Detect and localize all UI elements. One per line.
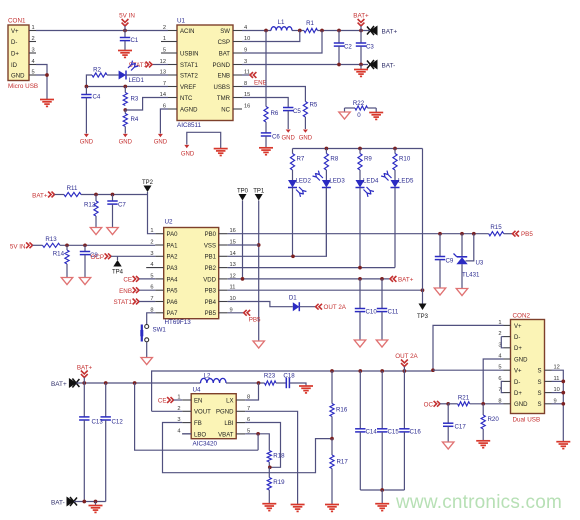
switch SW1 (147, 313, 156, 325)
resistor R4 (124, 110, 126, 114)
svg-text:NTC: NTC (180, 96, 193, 102)
resistor R23 (265, 381, 277, 385)
wire ACIN net: CON1 V+ to U1 ACIN (36, 30, 168, 32)
wire R21 to CON2 GND8 (470, 403, 504, 405)
wire VOUT rail (OUT 2A net) (152, 371, 433, 411)
svg-text:Micro USB: Micro USB (8, 83, 38, 90)
svg-text:D-: D- (11, 40, 17, 46)
wire BAT to U1.9 (242, 31, 322, 54)
test point TP4 (117, 256, 119, 260)
node R16/R17 feedback junction (331, 417, 333, 439)
svg-text:AIC8511: AIC8511 (177, 122, 202, 129)
svg-text:C11: C11 (388, 309, 399, 316)
svg-text:VOUT: VOUT (194, 410, 211, 416)
svg-text:LBI: LBI (224, 421, 233, 427)
svg-text:R5: R5 (310, 102, 318, 109)
ground GND port R4 (123, 134, 128, 137)
capacitor C9 (439, 234, 441, 257)
resistor R15 (489, 232, 504, 236)
svg-text:S: S (537, 369, 541, 375)
capacitor C1 (124, 31, 126, 38)
wire CON2 S pins to ground (552, 370, 564, 441)
svg-text:PGND: PGND (216, 410, 234, 416)
svg-text:4: 4 (150, 262, 153, 268)
off-sheet connector BAT- (bottom) (67, 497, 75, 507)
svg-text:GND: GND (514, 402, 528, 408)
svg-text:ENB: ENB (254, 80, 267, 87)
wire SW1 to ground (146, 342, 148, 358)
wire L2 to LX junction (226, 382, 265, 384)
svg-text:V+: V+ (514, 324, 522, 330)
ground R22 right (bar ground) (375, 108, 377, 113)
LED LED2 (288, 180, 297, 188)
svg-text:PA2: PA2 (167, 255, 179, 261)
svg-text:U2: U2 (165, 219, 174, 226)
svg-text:PA1: PA1 (167, 243, 179, 249)
svg-text:PB4: PB4 (205, 300, 217, 306)
svg-text:STAT1: STAT1 (113, 299, 132, 306)
inductor L2 (201, 378, 227, 383)
capacitor C13 (83, 383, 85, 417)
resistor R21 (458, 402, 470, 406)
svg-text:R23: R23 (264, 373, 276, 380)
connector CON1 Micro USB (8, 25, 29, 81)
wire LED1 cathode to U1 STAT2 (126, 74, 168, 76)
svg-text:2: 2 (150, 240, 153, 246)
svg-text:BAT: BAT (219, 51, 231, 57)
svg-text:5: 5 (32, 70, 35, 76)
node NTC divider junction (123, 108, 127, 112)
svg-text:ENB: ENB (119, 288, 132, 295)
capacitor C10 (359, 279, 361, 309)
svg-text:BAT-: BAT- (51, 500, 65, 507)
ground GND port C5 (286, 130, 291, 133)
svg-text:GND: GND (282, 136, 296, 142)
resistor R18 (267, 451, 271, 463)
svg-text:www.cntronics.com: www.cntronics.com (395, 492, 562, 513)
resistor R12 (95, 195, 97, 202)
wire AGND to GND (160, 109, 168, 134)
svg-text:R6: R6 (271, 110, 279, 117)
svg-text:TP3: TP3 (417, 314, 429, 320)
capacitor C14 (359, 371, 361, 429)
inductor L1 (271, 27, 292, 31)
svg-text:PA7: PA7 (167, 311, 179, 317)
wire BAT+ rail to L2 (152, 382, 201, 384)
svg-text:VSS: VSS (204, 243, 216, 249)
svg-text:AIC3420: AIC3420 (193, 441, 218, 448)
ground C9 (open) (434, 288, 445, 295)
resistor R2 (86, 75, 92, 87)
ground CON2 shield (bar ground) (556, 441, 570, 443)
ground C17 (open) (443, 442, 454, 449)
net label PB5 right (504, 233, 513, 235)
svg-text:CE: CE (158, 398, 167, 405)
svg-text:D-: D- (514, 335, 520, 341)
ground CON1 (bar ground) (40, 99, 54, 101)
wire PB1 net: U2.14 to LED2/LED3 (228, 255, 327, 257)
svg-text:D-: D- (514, 380, 520, 386)
svg-text:STAT1: STAT1 (180, 63, 199, 69)
svg-text:R12: R12 (84, 202, 96, 209)
svg-text:R18: R18 (273, 453, 285, 460)
wire BAT+ rail bottom (76, 382, 152, 384)
svg-text:C1: C1 (131, 37, 139, 44)
svg-text:PB0: PB0 (205, 232, 217, 238)
svg-text:GND: GND (11, 73, 25, 79)
wire CON1 GND down (36, 75, 47, 99)
svg-text:USBS: USBS (214, 85, 230, 91)
svg-text:OUT 2A: OUT 2A (324, 304, 347, 311)
wire output cap ground rail (360, 489, 404, 491)
svg-text:R7: R7 (297, 156, 305, 163)
svg-text:2: 2 (163, 25, 166, 31)
svg-text:PA5: PA5 (167, 289, 179, 295)
node R1 right / BAT sense (318, 30, 369, 32)
node L1-R1 (292, 30, 304, 32)
net label OUT 2A (299, 306, 315, 308)
wire ground tie below U1 (187, 132, 221, 148)
ground SW1 (open) (141, 358, 152, 365)
svg-text:L1: L1 (278, 19, 285, 26)
svg-text:Dual USB: Dual USB (513, 417, 541, 424)
svg-text:R16: R16 (336, 407, 348, 414)
svg-text:PB5: PB5 (521, 231, 533, 238)
resistor R9 (359, 149, 361, 154)
test point TP3 (422, 290, 424, 303)
svg-text:R21: R21 (458, 394, 470, 401)
node R18/R19 junction (268, 462, 270, 467)
svg-text:5V IN: 5V IN (10, 243, 26, 250)
svg-text:GND: GND (119, 140, 133, 146)
node 5V IN junction (123, 29, 127, 33)
ground C6 (bar ground) (259, 147, 273, 149)
svg-text:SW1: SW1 (153, 327, 167, 334)
svg-text:OC: OC (424, 401, 434, 408)
ground R14 (open) (61, 278, 72, 285)
svg-text:PB1: PB1 (205, 255, 217, 261)
svg-text:L2: L2 (204, 373, 211, 380)
wire CON2 V+ pins tie (433, 325, 504, 370)
resistor R6 (264, 107, 268, 123)
ground PGND (bar ground) (291, 504, 305, 506)
svg-text:CSP: CSP (218, 40, 230, 46)
ground C18 (bar ground) (299, 385, 313, 387)
IC U2 HT69F13 (164, 228, 219, 319)
wire SW node (242, 30, 271, 32)
svg-text:R20: R20 (488, 416, 500, 423)
svg-text:5: 5 (163, 48, 166, 54)
svg-text:ENB: ENB (218, 73, 230, 79)
svg-text:D+: D+ (514, 346, 522, 352)
svg-text:CON1: CON1 (8, 18, 26, 25)
net label BAT+ on VDD (393, 276, 396, 282)
wire CON2 D-/D+ tie upper (501, 336, 503, 338)
svg-text:USBIN: USBIN (180, 51, 198, 57)
wire PGND down to ground (245, 411, 297, 504)
svg-text:LBO: LBO (194, 432, 206, 438)
ground output caps (bar ground) (381, 490, 383, 504)
svg-text:ID: ID (11, 63, 18, 69)
wire TP1 through VSS to ground (258, 201, 260, 342)
wire VBAT net (245, 434, 269, 451)
svg-text:LED4: LED4 (363, 178, 379, 185)
svg-text:C3: C3 (366, 44, 374, 51)
wire PGND rail to BAT- (242, 64, 368, 66)
svg-text:NC: NC (221, 107, 230, 113)
wire R13 to U2 PA1 (60, 244, 155, 246)
svg-text:C16: C16 (410, 429, 422, 436)
net label ENB at U1.11 (242, 74, 250, 76)
svg-text:LED1: LED1 (129, 77, 145, 84)
svg-text:R10: R10 (399, 156, 411, 163)
node C2 top (337, 29, 341, 33)
svg-text:U3: U3 (476, 260, 484, 267)
svg-text:STAT2: STAT2 (180, 73, 199, 79)
wire VOUT to rail (152, 410, 183, 412)
svg-text:PB3: PB3 (205, 289, 217, 295)
resistor R1 (304, 28, 318, 32)
diode D1 (293, 302, 300, 311)
svg-text:LX: LX (226, 398, 233, 404)
LED LED3 (322, 180, 331, 188)
svg-text:TP4: TP4 (112, 270, 124, 276)
wire FB net (163, 423, 333, 473)
capacitor C18 (276, 382, 286, 384)
svg-text:EN: EN (194, 398, 202, 404)
ground GND port C4 (84, 134, 89, 137)
wire TMR to C5 (242, 98, 288, 108)
ground R19 (bar ground) (262, 503, 276, 505)
wire VBAT sense down-right (135, 383, 259, 450)
svg-text:SW: SW (220, 29, 230, 35)
svg-text:BAT+: BAT+ (353, 13, 369, 20)
wire VREF net (86, 86, 168, 88)
svg-text:R17: R17 (337, 459, 349, 466)
svg-text:TP2: TP2 (142, 180, 154, 186)
wire VDD net (BAT+) (228, 278, 390, 280)
node C17 junction (446, 402, 450, 406)
svg-text:OUT 2A: OUT 2A (395, 353, 418, 360)
svg-text:C18: C18 (283, 373, 295, 380)
resistor R17 (331, 439, 333, 455)
wire CSP to U1.10 (242, 31, 300, 42)
svg-text:LED3: LED3 (329, 178, 345, 185)
svg-text:PA4: PA4 (167, 277, 179, 283)
svg-text:D+: D+ (514, 391, 522, 397)
capacitor C15 (381, 371, 383, 429)
svg-text:BAT+: BAT+ (382, 29, 398, 36)
svg-text:C10: C10 (366, 309, 378, 316)
svg-text:C12: C12 (112, 419, 124, 426)
off-sheet connector BAT+ (top) (370, 26, 378, 36)
off-sheet connector BAT+ (bottom) (69, 378, 77, 388)
svg-text:R4: R4 (131, 116, 139, 123)
svg-text:4: 4 (32, 59, 35, 65)
ground R12 (open) (90, 228, 101, 235)
LED LED4 (356, 180, 365, 188)
wire LED anode rail (PB3 net) (293, 148, 423, 150)
svg-text:7: 7 (150, 296, 153, 302)
ground R17 (bar ground) (325, 504, 339, 506)
svg-text:S: S (537, 391, 541, 397)
ground GND port AGND (158, 134, 163, 137)
wire R11 to TP2 column (81, 194, 148, 196)
capacitor C6 (265, 122, 267, 133)
wire NTC net to U1.14 (125, 98, 168, 111)
svg-text:GND: GND (514, 357, 528, 363)
svg-text:1: 1 (163, 36, 166, 42)
svg-text:BAT-: BAT- (382, 63, 396, 70)
svg-text:R11: R11 (67, 185, 78, 192)
wire CON2 D-/D+ tie lower (501, 381, 503, 392)
svg-text:R2: R2 (93, 67, 101, 74)
ground C1 (118, 50, 132, 52)
resistor R7 (292, 149, 294, 154)
wire SW node down to R6 (265, 31, 267, 107)
svg-text:TL431: TL431 (462, 272, 480, 279)
svg-text:1: 1 (32, 25, 35, 31)
wire BAT- rail (74, 501, 106, 503)
capacitor C16 (403, 371, 405, 429)
svg-text:VREF: VREF (180, 85, 196, 91)
wire CON2 GND4 down (483, 359, 503, 404)
svg-text:3: 3 (32, 48, 35, 54)
svg-text:LED5: LED5 (398, 178, 414, 185)
resistor R16 (331, 371, 333, 404)
wire CON1 ID to GND (36, 65, 47, 76)
ground C8 (open) (79, 278, 90, 285)
ground U3 (open) (456, 289, 467, 296)
svg-text:R3: R3 (131, 96, 139, 103)
svg-text:C17: C17 (455, 424, 467, 431)
IC U1 AIC8511 (177, 25, 233, 121)
LED LED5 (391, 180, 400, 188)
svg-text:S: S (537, 402, 541, 408)
capacitor C4 (85, 87, 87, 95)
wire VSS from U2.15 (228, 244, 259, 246)
ground BAT- (bar ground) (95, 502, 97, 506)
svg-text:CON2: CON2 (513, 313, 531, 320)
svg-text:OCP: OCP (90, 254, 104, 261)
svg-text:LED2: LED2 (296, 178, 312, 185)
wire LX to L2 junction (245, 383, 258, 400)
svg-text:4: 4 (177, 428, 180, 434)
svg-text:C5: C5 (293, 108, 301, 115)
svg-text:AGND: AGND (180, 107, 198, 113)
svg-text:U4: U4 (193, 387, 202, 394)
ground R22 left (open) (344, 108, 346, 112)
off-sheet connector BAT- (top) (370, 60, 378, 70)
resistor R5 (303, 102, 307, 118)
wire PB4 net to D1 (228, 302, 293, 307)
svg-text:R8: R8 (330, 156, 338, 163)
svg-text:TMR: TMR (217, 96, 231, 102)
ground VSS (open) (253, 341, 264, 348)
ground GND port R5 (303, 130, 308, 133)
svg-text:1: 1 (150, 228, 153, 234)
resistor R14 (66, 245, 68, 250)
wire LBI to divider (245, 423, 280, 468)
resistor R10 (394, 149, 396, 154)
svg-text:C14: C14 (366, 429, 378, 436)
svg-text:FB: FB (194, 421, 202, 427)
svg-text:PGND: PGND (213, 63, 231, 69)
ground GND port left tie (184, 145, 189, 148)
node C3 top / BAT+ (359, 29, 363, 33)
svg-text:VBAT: VBAT (218, 432, 234, 438)
svg-text:TP0: TP0 (237, 189, 249, 195)
svg-text:HT69F13: HT69F13 (165, 319, 192, 326)
ground R20 (bar ground) (476, 440, 490, 442)
capacitor C3 (360, 31, 362, 44)
svg-text:2: 2 (498, 331, 501, 337)
net label STAT1 into U1.12 (152, 64, 168, 66)
capacitor C2 (338, 31, 340, 44)
wire PB2 net: U2.13 to LED4/LED5 (228, 267, 395, 269)
wire TP2 to U2 PA0 (148, 192, 156, 234)
svg-text:C15: C15 (388, 429, 400, 436)
net label PB5 at U2.9 (228, 312, 244, 314)
svg-text:PB5: PB5 (205, 311, 217, 317)
svg-text:5: 5 (150, 273, 153, 279)
svg-text:S: S (537, 380, 541, 386)
svg-text:0: 0 (357, 112, 361, 119)
svg-text:2: 2 (32, 36, 35, 42)
svg-text:BAT+: BAT+ (398, 276, 414, 283)
svg-text:D1: D1 (289, 295, 297, 302)
resistor R8 (325, 149, 327, 154)
wire rail to CON2 V+ 5 (433, 369, 504, 371)
svg-text:PA0: PA0 (167, 232, 179, 238)
capacitor C11 (381, 279, 383, 309)
svg-text:V+: V+ (514, 369, 522, 375)
IC U4 AIC3420 (191, 394, 236, 439)
svg-text:R1: R1 (306, 20, 314, 27)
ground C10 (open) (354, 340, 365, 347)
svg-text:PB5: PB5 (249, 317, 261, 324)
svg-text:R14: R14 (53, 251, 65, 258)
wire TP0 down to VDD row (242, 201, 244, 279)
capacitor C12 (105, 383, 107, 417)
svg-text:5V IN: 5V IN (119, 13, 135, 20)
LED LED1 (107, 74, 119, 76)
wire PB0 net to R15 (228, 233, 489, 235)
svg-text:R15: R15 (490, 224, 502, 231)
shunt regulator U3 TL431 (461, 234, 463, 257)
capacitor C5 (283, 107, 293, 109)
svg-text:C2: C2 (344, 44, 352, 51)
svg-text:VDD: VDD (203, 277, 216, 283)
svg-text:R13: R13 (45, 236, 57, 243)
svg-text:R19: R19 (273, 479, 285, 486)
pin stub LBO (182, 433, 191, 435)
svg-text:16: 16 (244, 104, 250, 110)
svg-text:PA6: PA6 (167, 300, 179, 306)
svg-text:BAT+: BAT+ (51, 381, 67, 388)
svg-text:GND: GND (80, 140, 94, 146)
capacitor C8 (84, 245, 86, 251)
svg-text:CE: CE (123, 277, 132, 284)
svg-text:GND: GND (181, 152, 195, 158)
svg-text:D+: D+ (11, 51, 19, 57)
svg-text:C6: C6 (272, 134, 280, 141)
wire USBS to R5 (242, 87, 305, 102)
capacitor C17 (447, 404, 449, 423)
svg-text:C4: C4 (93, 94, 101, 101)
svg-text:BAT+: BAT+ (77, 365, 93, 372)
svg-text:BAT+: BAT+ (32, 192, 48, 199)
